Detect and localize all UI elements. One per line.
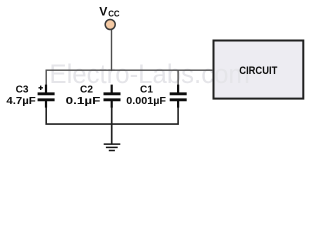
svg-text:V: V — [99, 5, 108, 19]
svg-text:CC: CC — [108, 10, 120, 19]
svg-text:CIRCUIT: CIRCUIT — [239, 65, 277, 77]
svg-text:0.1µF: 0.1µF — [66, 96, 101, 107]
wire: bottom rail with corners to C3 and C1 — [46, 107, 178, 125]
capacitor C2 — [104, 85, 121, 108]
wire: top rail with corner to C3 — [46, 70, 213, 86]
svg-text:4.7µF: 4.7µF — [6, 96, 35, 107]
C3 plus sign — [39, 86, 43, 90]
wire: C2 bottom lead and ground stem — [111, 107, 113, 145]
circuit box U1 fill — [214, 41, 304, 99]
Vcc terminal circle — [105, 20, 115, 30]
ground — [104, 144, 121, 150]
capacitor C3 (polarized) — [38, 85, 55, 108]
circuit box U1 border — [214, 41, 304, 99]
capacitor C1 — [170, 85, 187, 108]
svg-text:C3: C3 — [16, 85, 29, 96]
wire: C1 lead from rail down — [177, 70, 179, 86]
svg-text:C1: C1 — [140, 85, 153, 96]
svg-text:C2: C2 — [80, 84, 93, 95]
svg-text:0.001µF: 0.001µF — [126, 96, 166, 107]
wire: Vcc terminal to top rail — [111, 30, 113, 72]
